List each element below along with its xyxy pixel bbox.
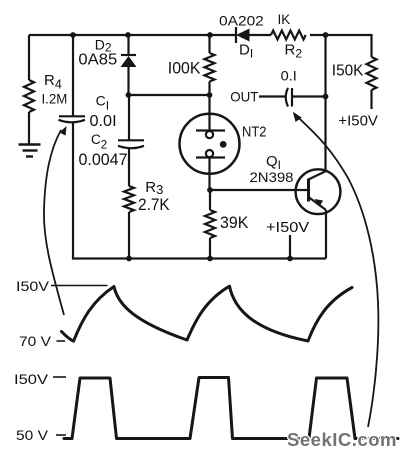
tube NT2 envelope xyxy=(180,114,240,174)
wire xyxy=(128,148,130,186)
svg-text:CI: CI xyxy=(96,93,109,113)
wire xyxy=(127,67,129,95)
node junction dot xyxy=(207,92,213,98)
wire xyxy=(73,123,326,259)
svg-text:0A202: 0A202 xyxy=(219,13,264,29)
svg-text:+I50V: +I50V xyxy=(338,113,378,129)
tube gas dot xyxy=(220,141,227,148)
svg-text:0A85: 0A85 xyxy=(78,52,117,69)
svg-text:+I50V: +I50V xyxy=(266,220,310,236)
svg-text:2N398: 2N398 xyxy=(250,169,294,185)
wire xyxy=(128,212,130,259)
svg-text:DI: DI xyxy=(239,42,253,61)
wire xyxy=(128,95,130,140)
resistor 100K xyxy=(205,53,215,82)
wire 50V dash xyxy=(56,434,66,436)
wire link xyxy=(129,94,210,96)
svg-text:I50K: I50K xyxy=(332,62,364,79)
resistor 39K xyxy=(205,210,215,238)
wire xyxy=(209,190,211,210)
svg-text:R2: R2 xyxy=(285,42,303,61)
svg-text:39K: 39K xyxy=(220,214,248,232)
wire xyxy=(127,35,129,55)
diode D2 xyxy=(121,55,137,67)
node junction dot D2 top xyxy=(125,32,131,38)
capacitor C2 xyxy=(118,140,144,148)
wire xyxy=(208,82,210,96)
wire xyxy=(292,95,326,97)
svg-text:I50V: I50V xyxy=(16,278,50,294)
wire xyxy=(370,90,372,109)
wire xyxy=(208,95,210,131)
node junction dot xyxy=(126,256,132,262)
svg-text:50 V: 50 V xyxy=(16,427,49,443)
svg-text:C2: C2 xyxy=(91,132,107,151)
diode D1 xyxy=(236,27,271,43)
node junction dot xyxy=(126,92,132,98)
wire xyxy=(208,35,210,53)
waveform pulse xyxy=(64,378,398,439)
node junction dot xyxy=(323,94,329,100)
resistor R2 xyxy=(271,31,306,40)
wire 150V dash xyxy=(53,376,66,378)
node junction dot C1 top xyxy=(70,32,76,38)
ground xyxy=(19,145,41,157)
svg-text:2.7K: 2.7K xyxy=(138,196,170,214)
svg-text:NT2: NT2 xyxy=(242,124,267,141)
wire 150V reference line xyxy=(51,285,108,287)
svg-text:IK: IK xyxy=(278,11,291,27)
wire emitter down xyxy=(325,210,327,259)
resistor R4 xyxy=(24,80,34,112)
svg-text:SeekIC.com: SeekIC.com xyxy=(287,429,397,450)
wire top bus xyxy=(29,34,236,36)
wire collector/out vertical xyxy=(324,35,326,171)
node junction dot 100K top xyxy=(207,32,213,38)
node junction dot xyxy=(207,187,213,193)
wire xyxy=(259,95,286,97)
wire xyxy=(28,35,30,80)
wire 70V dash xyxy=(57,340,66,342)
wire base link xyxy=(210,189,309,191)
capacitor C1 xyxy=(59,116,86,122)
tube electrode bottom xyxy=(196,150,225,158)
svg-text:0.0047: 0.0047 xyxy=(79,150,128,169)
svg-text:I50V: I50V xyxy=(14,371,49,387)
svg-text:R3: R3 xyxy=(145,179,163,197)
svg-text:I.2M: I.2M xyxy=(42,91,68,107)
wire xyxy=(28,112,30,144)
svg-text:R4: R4 xyxy=(44,72,62,92)
capacitor 0.1 xyxy=(286,88,292,107)
wire xyxy=(208,158,210,191)
resistor R3 xyxy=(124,186,134,212)
wire xyxy=(209,238,211,259)
node junction dot R2 right xyxy=(323,32,329,38)
svg-text:0.0I: 0.0I xyxy=(90,113,117,130)
resistor 150K xyxy=(367,57,377,90)
arrow callout to C1 xyxy=(44,126,67,315)
transistor Q1 xyxy=(296,169,341,214)
svg-text:I00K: I00K xyxy=(168,60,201,78)
waveform sawtooth xyxy=(62,286,353,341)
wire xyxy=(289,235,291,259)
arrow callout to OUT capacitor xyxy=(293,112,379,427)
svg-text:70 V: 70 V xyxy=(19,333,52,349)
node junction dot xyxy=(207,256,213,262)
wire xyxy=(310,35,372,57)
svg-text:OUT: OUT xyxy=(230,88,259,104)
tube electrode top xyxy=(196,131,225,139)
wire xyxy=(72,35,74,116)
svg-text:0.I: 0.I xyxy=(281,68,297,84)
node junction dot xyxy=(287,256,293,262)
